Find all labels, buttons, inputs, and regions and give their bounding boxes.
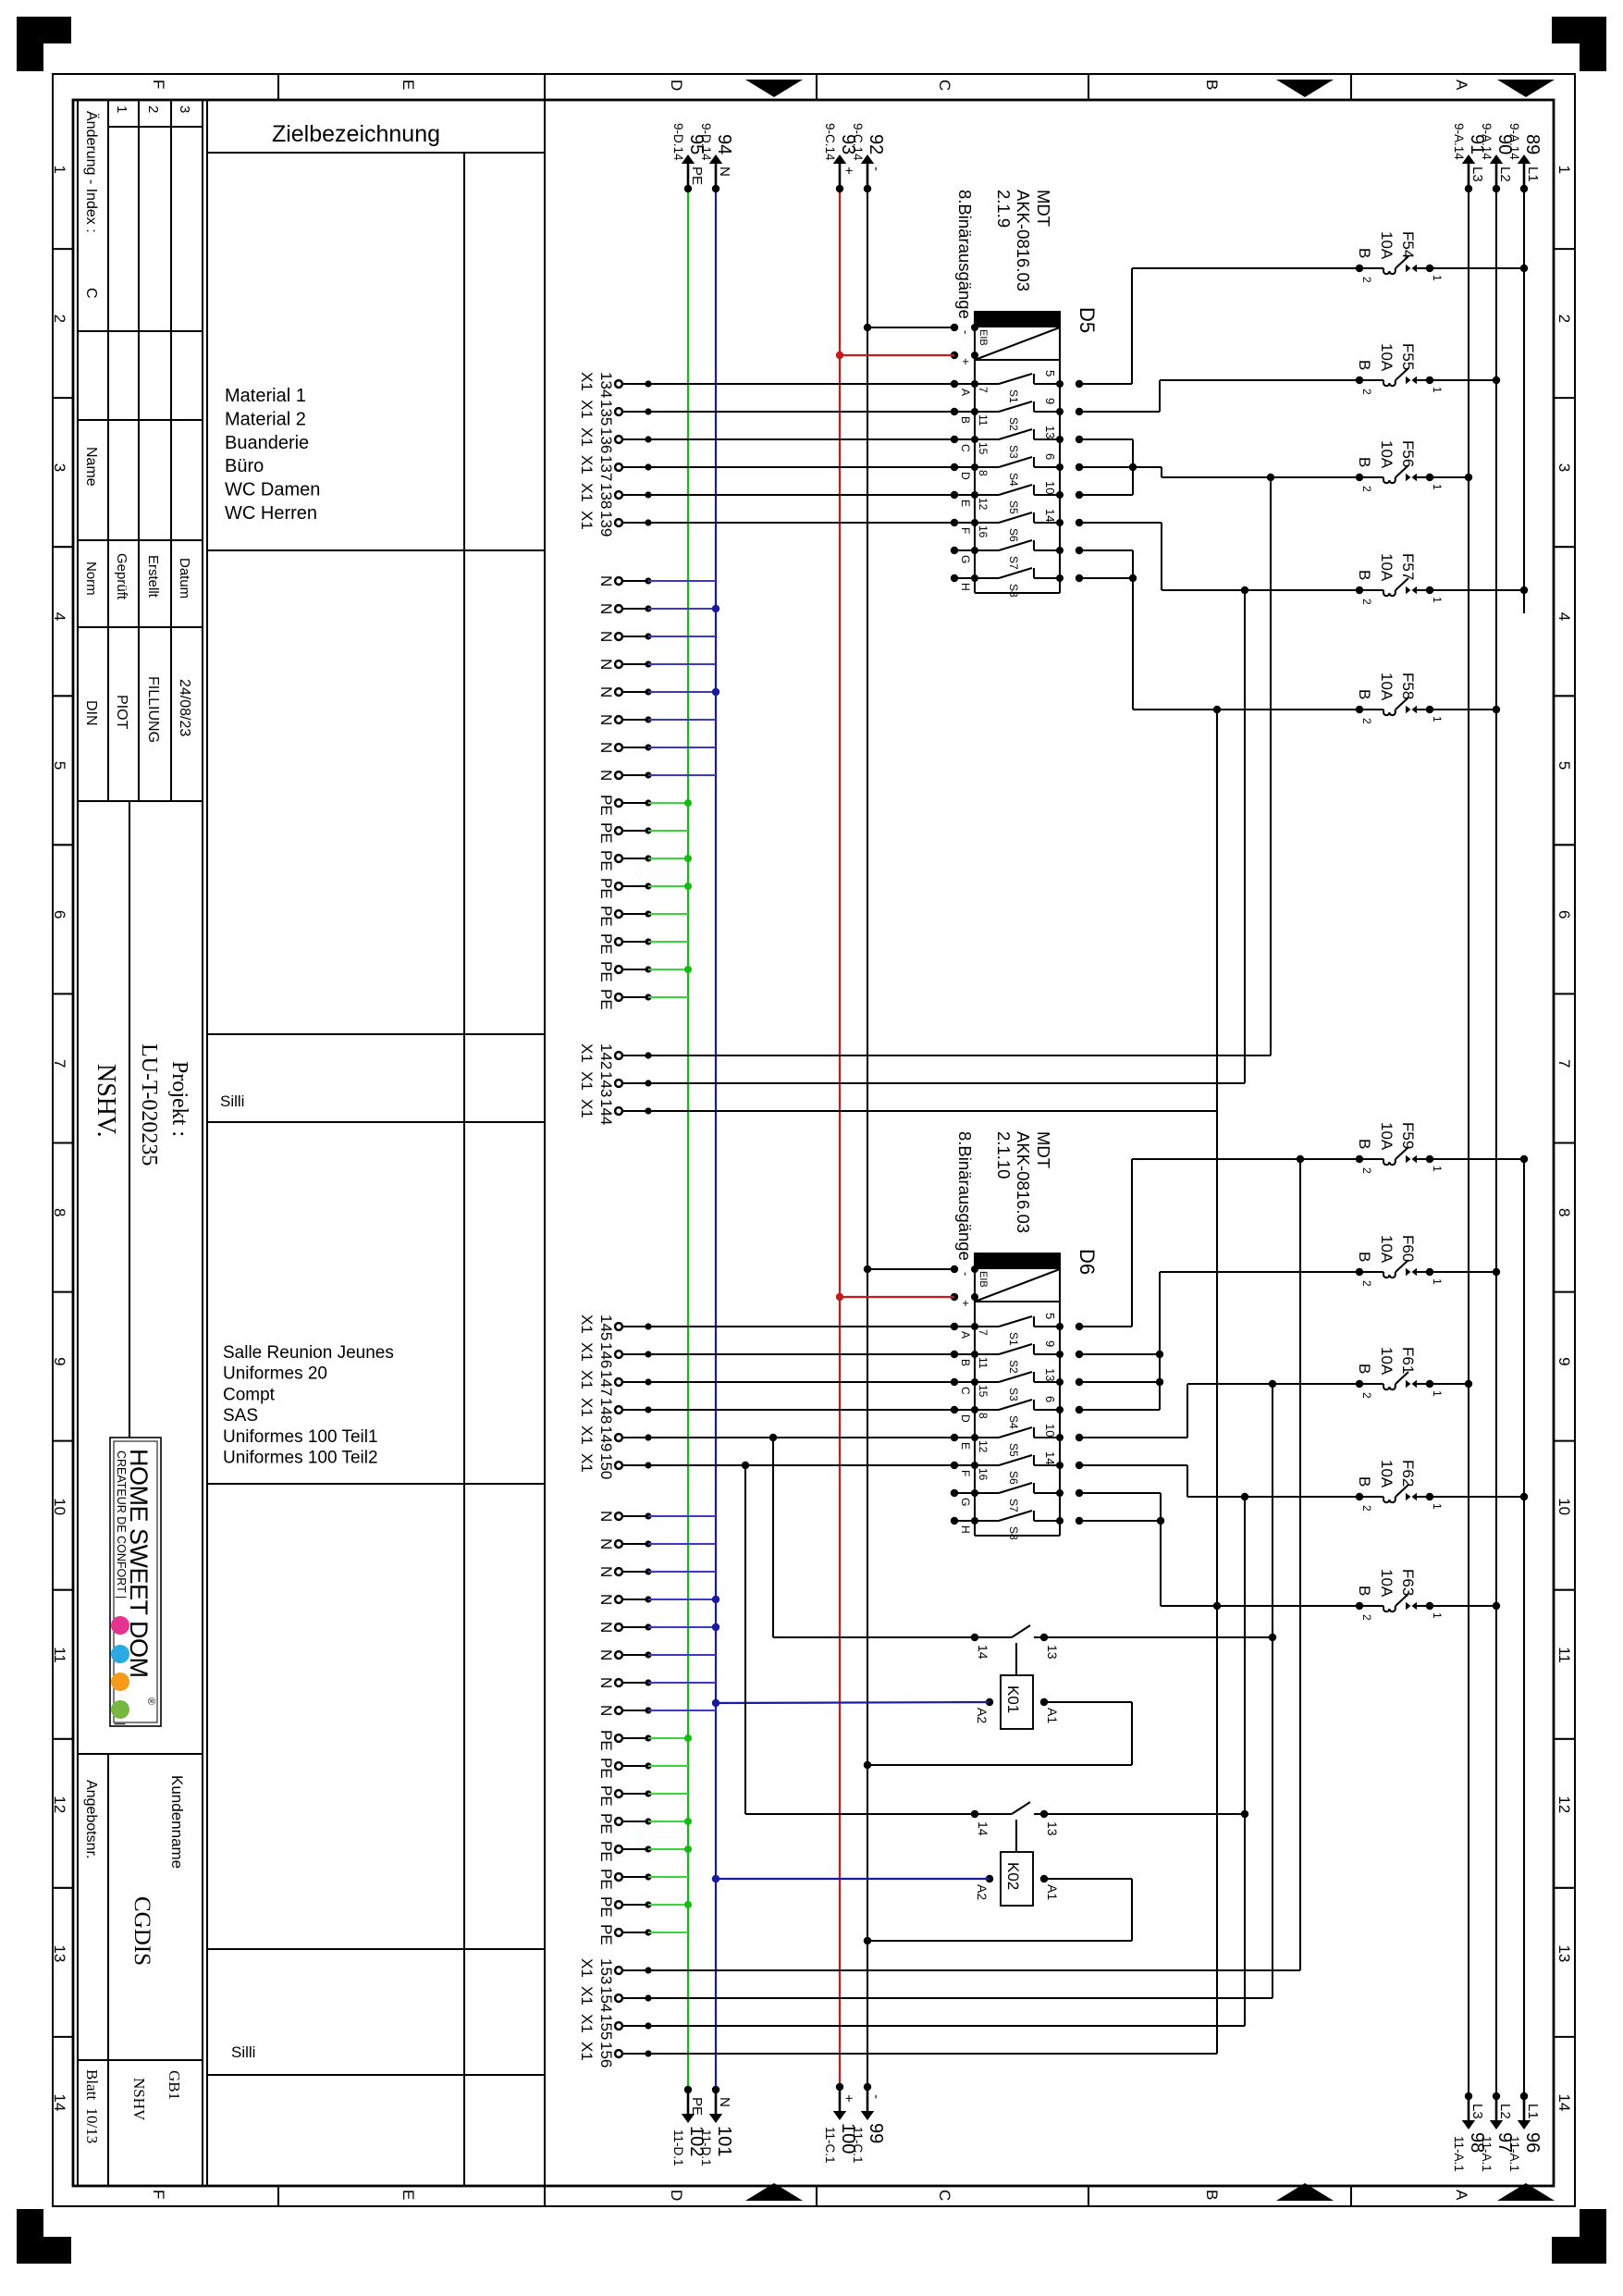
net L2 rail (90/97) (1495, 190, 1497, 2096)
svg-text:N: N (597, 714, 615, 725)
svg-text:3: 3 (51, 463, 68, 472)
wire X1:134 to D5 pin (648, 383, 954, 385)
svg-text:B: B (1356, 457, 1373, 467)
svg-text:Zielbezeichnung: Zielbezeichnung (272, 121, 440, 147)
svg-text:D5: D5 (1076, 307, 1099, 333)
svg-text:2.1.9: 2.1.9 (994, 190, 1014, 228)
svg-text:11: 11 (977, 1357, 990, 1369)
svg-text:3: 3 (177, 105, 192, 113)
svg-text:14: 14 (976, 1645, 990, 1660)
svg-text:1: 1 (1431, 597, 1444, 603)
svg-text:PE: PE (597, 1785, 615, 1807)
svg-text:S8: S8 (1007, 584, 1020, 598)
svg-text:X1: X1 (578, 400, 596, 419)
wire X1:145 to D6 pin (648, 1326, 954, 1327)
wire X1:143 riser to breaker node (648, 1082, 1245, 1084)
svg-text:145: 145 (597, 1315, 615, 1340)
svg-text:X1: X1 (578, 1426, 596, 1445)
svg-text:X1: X1 (578, 511, 596, 530)
wire X1:149 to K01 contact 14 (772, 1438, 774, 1637)
wire F56 to D5 outs 13/6/10 (1079, 438, 1133, 440)
wire X1:148 to D6 pin (648, 1409, 954, 1411)
svg-text:143: 143 (597, 1071, 615, 1097)
svg-text:LU-T-020235: LU-T-020235 (137, 1043, 161, 1166)
svg-text:L1: L1 (1525, 2104, 1541, 2119)
svg-text:11: 11 (51, 1647, 68, 1663)
svg-text:E: E (959, 500, 972, 507)
svg-text:L2: L2 (1497, 167, 1513, 182)
wire F63 to D6 outs S7/S8 (1079, 1492, 1161, 1494)
terminal X1:135 (578, 400, 652, 426)
svg-text:WC Herren: WC Herren (225, 503, 317, 524)
svg-text:MDT: MDT (1034, 190, 1053, 227)
svg-text:X1: X1 (578, 1398, 596, 1417)
svg-text:1: 1 (1431, 1278, 1444, 1285)
breaker F63 10A B on L2 (1356, 1569, 1500, 1621)
svg-text:N: N (597, 1649, 615, 1660)
svg-text:C: C (83, 288, 99, 299)
svg-text:B: B (1356, 1252, 1373, 1262)
svg-text:DIN: DIN (83, 700, 99, 726)
svg-text:Büro: Büro (225, 456, 264, 476)
svg-text:1: 1 (1431, 716, 1444, 722)
svg-text:N: N (597, 1594, 615, 1605)
wire +24V to D5 (840, 354, 954, 356)
svg-text:N: N (597, 742, 615, 753)
svg-text:146: 146 (597, 1342, 615, 1368)
svg-text:11-A.1: 11-A.1 (1480, 2136, 1494, 2172)
svg-text:9-D.14: 9-D.14 (671, 123, 685, 161)
breaker F60 10A B on L2 (1356, 1235, 1500, 1287)
svg-text:9-A.14: 9-A.14 (1507, 123, 1521, 160)
svg-text:5: 5 (51, 761, 68, 770)
terminal PE (597, 822, 652, 844)
svg-text:4: 4 (1555, 612, 1573, 621)
svg-text:10A: 10A (1378, 1122, 1396, 1151)
net L1 rail (89/96) (1523, 190, 1525, 613)
wire N to K02 A2 (716, 1878, 990, 1880)
terminal N (597, 1649, 652, 1660)
svg-text:X1: X1 (578, 1986, 596, 2006)
svg-text:11-D.1: 11-D.1 (699, 2129, 713, 2166)
svg-text:11-C.1: 11-C.1 (851, 2127, 865, 2164)
svg-text:F60: F60 (1399, 1235, 1417, 1262)
svg-text:K01: K01 (1004, 1685, 1022, 1713)
svg-text:PE: PE (597, 933, 615, 955)
wire K01 A1 loop to -24V (1044, 1701, 1132, 1703)
svg-text:L3: L3 (1469, 167, 1485, 182)
wire X1:136 to D5 pin (648, 438, 954, 440)
svg-text:Uniformes 100 Teil1: Uniformes 100 Teil1 (223, 1427, 378, 1447)
svg-text:X1: X1 (578, 1958, 596, 1978)
svg-text:2: 2 (1360, 277, 1373, 283)
net PE rail (95/102) (687, 189, 689, 2090)
terminal PE (597, 1841, 652, 1862)
svg-text:1: 1 (1431, 1612, 1444, 1619)
svg-text:6: 6 (1043, 453, 1057, 460)
svg-text:Silli: Silli (231, 2043, 255, 2061)
svg-text:1: 1 (1431, 275, 1444, 281)
terminal N (597, 1594, 652, 1605)
svg-text:A1: A1 (1045, 1884, 1060, 1900)
svg-text:Uniformes 100 Teil2: Uniformes 100 Teil2 (223, 1449, 378, 1468)
svg-text:11: 11 (977, 414, 990, 426)
svg-text:X1: X1 (578, 2042, 596, 2061)
svg-text:HOME SWEET DOM: HOME SWEET DOM (125, 1449, 153, 1678)
terminal X1:150 (578, 1453, 652, 1479)
svg-text:150: 150 (597, 1453, 615, 1479)
svg-text:5: 5 (1555, 761, 1573, 770)
contactor K02 (971, 1802, 1060, 1906)
svg-text:X1: X1 (578, 483, 596, 502)
terminal PE (597, 1730, 652, 1751)
svg-text:F: F (959, 527, 972, 534)
wire X1:144 riser to breaker node (648, 1110, 1217, 1112)
wire X1:154 feed (648, 1997, 1273, 1999)
svg-text:X1: X1 (578, 1315, 596, 1334)
svg-text:7: 7 (51, 1059, 68, 1068)
svg-text:+: + (959, 1300, 973, 1307)
svg-text:L1: L1 (1525, 167, 1541, 182)
svg-text:X1: X1 (578, 1099, 596, 1118)
wire X1:137 to D5 pin (648, 466, 954, 468)
breaker F57 10A B on L1 (1356, 553, 1528, 605)
net N rail (94/101) (715, 189, 717, 2090)
svg-text:S4: S4 (1007, 473, 1020, 487)
svg-text:F58: F58 (1399, 673, 1417, 699)
svg-text:14: 14 (1043, 509, 1057, 522)
svg-text:E: E (400, 80, 417, 90)
svg-text:92: 92 (866, 134, 886, 154)
svg-text:Material 1: Material 1 (225, 386, 306, 406)
svg-text:13: 13 (1043, 426, 1057, 438)
svg-text:7: 7 (977, 1329, 990, 1336)
node arrow 89 L1 from 9-A.14 (1507, 123, 1543, 192)
svg-text:10: 10 (1043, 481, 1057, 494)
svg-text:2: 2 (1360, 1505, 1373, 1512)
wire X1:147 to D6 pin (648, 1381, 954, 1383)
terminal N (597, 631, 652, 642)
svg-text:9: 9 (1555, 1357, 1573, 1365)
node arrow 93 + from 9-C.14 (823, 123, 858, 192)
svg-text:X1: X1 (578, 372, 596, 391)
terminal X1:154 (578, 1986, 652, 2012)
svg-text:11-A.1: 11-A.1 (1507, 2136, 1521, 2172)
svg-text:24/08/23: 24/08/23 (177, 679, 192, 736)
svg-text:N: N (597, 1566, 615, 1577)
svg-text:N: N (597, 1677, 615, 1688)
breaker F56 10A B on L3 (1356, 440, 1472, 492)
svg-text:136: 136 (597, 427, 615, 453)
svg-text:S8: S8 (1007, 1526, 1020, 1540)
svg-text:6: 6 (51, 910, 68, 919)
svg-text:B: B (1356, 1364, 1373, 1374)
svg-text:89: 89 (1522, 134, 1543, 154)
svg-text:1: 1 (1431, 387, 1444, 393)
svg-text:C: C (959, 444, 972, 452)
svg-text:PE: PE (597, 1869, 615, 1890)
terminal PE (597, 1869, 652, 1890)
svg-text:PE: PE (597, 1730, 615, 1751)
breaker F59 10A B on L1 (1356, 1122, 1528, 1174)
terminal X1:136 (578, 427, 652, 453)
terminal N (597, 1677, 652, 1688)
svg-text:N: N (717, 2097, 732, 2107)
svg-text:10A: 10A (1378, 1460, 1396, 1488)
node arrow 100 + to 11-C.1 (823, 2083, 858, 2164)
svg-text:12: 12 (51, 1796, 68, 1813)
svg-text:2: 2 (145, 105, 161, 113)
svg-text:GB1: GB1 (166, 2070, 183, 2100)
svg-text:Änderung - Index :: Änderung - Index : (83, 111, 100, 233)
svg-text:16: 16 (977, 525, 990, 538)
svg-text:N: N (597, 1705, 615, 1716)
svg-text:PE: PE (597, 1896, 615, 1918)
svg-text:F: F (150, 2190, 167, 2199)
svg-text:6: 6 (1043, 1396, 1057, 1402)
svg-text:K02: K02 (1004, 1862, 1022, 1890)
svg-text:PE: PE (597, 822, 615, 844)
svg-text:7: 7 (1555, 1059, 1573, 1068)
svg-text:14: 14 (1555, 2093, 1573, 2111)
svg-text:16: 16 (977, 1468, 990, 1481)
svg-text:13: 13 (1045, 1645, 1060, 1660)
wire F60 to D6 outs 9/13/6 (1079, 1353, 1160, 1355)
svg-text:B: B (1356, 248, 1373, 258)
svg-text:PE: PE (689, 167, 705, 185)
svg-text:14: 14 (1043, 1451, 1057, 1464)
svg-text:3: 3 (1555, 463, 1573, 472)
svg-text:F62: F62 (1399, 1460, 1417, 1487)
svg-text:A: A (959, 389, 972, 396)
svg-text:14: 14 (51, 2093, 68, 2111)
svg-text:5: 5 (1043, 370, 1057, 376)
svg-text:PE: PE (597, 1924, 615, 1945)
svg-text:X1: X1 (578, 1370, 596, 1389)
svg-text:PE: PE (597, 878, 615, 899)
svg-text:2: 2 (51, 315, 68, 323)
svg-text:1: 1 (1431, 1503, 1444, 1510)
svg-text:Datum: Datum (177, 558, 192, 599)
wire X1:156 feed (648, 2053, 1217, 2055)
terminal N (597, 770, 652, 781)
svg-text:F59: F59 (1399, 1122, 1417, 1149)
terminal X1:149 (578, 1426, 652, 1451)
terminal PE (597, 1758, 652, 1779)
svg-text:X1: X1 (578, 1071, 596, 1091)
svg-text:S3: S3 (1007, 1388, 1020, 1401)
svg-text:8: 8 (51, 1208, 68, 1216)
svg-text:2: 2 (1360, 1280, 1373, 1287)
wire X1:139 to D5 pin (648, 522, 954, 524)
terminal PE (597, 1924, 652, 1945)
terminal N (597, 1538, 652, 1549)
svg-text:9-A.14: 9-A.14 (1480, 123, 1494, 160)
svg-text:2: 2 (1360, 1167, 1373, 1174)
wire F57 to D5 out14 (1079, 522, 1162, 524)
svg-text:154: 154 (597, 1986, 615, 2012)
svg-text:N: N (597, 603, 615, 614)
svg-text:F56: F56 (1399, 440, 1417, 467)
svg-text:Salle Reunion Jeunes: Salle Reunion Jeunes (223, 1343, 394, 1363)
svg-text:1: 1 (51, 166, 68, 174)
svg-text:9: 9 (1043, 398, 1057, 404)
breaker F61 10A B on L3 (1356, 1347, 1472, 1399)
node arrow 95 PE from 9-D.14 (671, 123, 707, 192)
terminal PE (597, 850, 652, 871)
svg-text:B: B (1356, 1139, 1373, 1149)
svg-text:+: + (841, 2094, 856, 2103)
wire F58 to D5 outs S7/S8 (1079, 549, 1133, 551)
terminal X1:145 (578, 1315, 652, 1340)
svg-text:B: B (1356, 689, 1373, 699)
wire riser F61 node to K01/X1:154 (1272, 1384, 1273, 1998)
terminal PE (597, 795, 652, 816)
terminal X1:139 (578, 511, 652, 537)
terminal X1:146 (578, 1342, 652, 1368)
wire F62 to D6 out14 (1079, 1464, 1187, 1466)
svg-text:A2: A2 (975, 1884, 990, 1900)
wire X1:155 feed (648, 2025, 1245, 2027)
wire F55 to D5 out9 (1079, 411, 1160, 413)
svg-text:S3: S3 (1007, 445, 1020, 459)
wire X1:150 to D6 pin (648, 1464, 954, 1466)
svg-text:Name: Name (83, 447, 99, 487)
svg-text:L3: L3 (1469, 2104, 1485, 2119)
svg-text:E: E (400, 2190, 417, 2200)
node arrow 102 PE to 11-D.1 (671, 2086, 707, 2166)
svg-text:H: H (959, 1525, 972, 1534)
svg-text:G: G (959, 555, 972, 563)
node arrow 92 - from 9-C.14 (851, 123, 886, 192)
svg-text:®: ® (145, 1697, 156, 1705)
terminal PE (597, 878, 652, 899)
svg-text:S6: S6 (1007, 1471, 1020, 1485)
terminal N (597, 1566, 652, 1577)
terminal X1:134 (578, 372, 652, 398)
svg-text:FILLIUNG: FILLIUNG (145, 676, 161, 743)
svg-text:2.1.10: 2.1.10 (994, 1131, 1014, 1179)
node arrow 91 L3 from 9-A.14 (1452, 123, 1487, 192)
svg-text:F: F (150, 80, 167, 89)
wire K02 A1 loop to -24V (1044, 1878, 1132, 1880)
svg-text:2: 2 (1360, 486, 1373, 492)
terminal N (597, 714, 652, 725)
svg-text:PE: PE (597, 906, 615, 927)
terminal X1:142 (578, 1043, 652, 1069)
svg-text:9: 9 (51, 1357, 68, 1365)
svg-text:12: 12 (1555, 1796, 1573, 1813)
contactor K01 (971, 1625, 1060, 1729)
svg-text:2: 2 (1360, 718, 1373, 724)
terminal PE (597, 933, 652, 955)
svg-text:PE: PE (597, 1841, 615, 1862)
svg-text:S1: S1 (1007, 1332, 1020, 1346)
svg-text:A: A (1453, 80, 1470, 91)
svg-text:144: 144 (597, 1099, 615, 1125)
svg-text:101: 101 (714, 2126, 734, 2156)
terminal X1:137 (578, 455, 652, 481)
svg-text:C: C (936, 2190, 953, 2201)
svg-text:PIOT: PIOT (114, 695, 129, 730)
node arrow 94 N from 9-D.14 (699, 123, 734, 192)
svg-text:CREATEUR DE CONFORT |: CREATEUR DE CONFORT | (115, 1450, 128, 1599)
svg-text:10A: 10A (1378, 1569, 1396, 1598)
node arrow 98 L3 to 11-A.1 (1452, 2092, 1487, 2172)
svg-text:EIB: EIB (977, 1271, 989, 1288)
svg-text:13: 13 (1045, 1821, 1060, 1836)
terminal N (597, 742, 652, 753)
svg-text:2: 2 (1555, 315, 1573, 323)
svg-text:Compt: Compt (223, 1385, 276, 1404)
svg-text:148: 148 (597, 1398, 615, 1424)
wire X1:149 to D6 pin (648, 1437, 954, 1438)
svg-text:15: 15 (977, 442, 990, 455)
svg-text:D: D (668, 80, 685, 91)
svg-text:G: G (959, 1498, 972, 1506)
svg-text:F61: F61 (1399, 1347, 1417, 1374)
breaker F58 10A B on L2 (1356, 673, 1500, 724)
svg-text:N: N (597, 631, 615, 642)
svg-text:135: 135 (597, 400, 615, 426)
breaker F62 10A B on L1 (1356, 1460, 1528, 1512)
net -24V rail (92/99) (867, 186, 868, 2087)
svg-text:14: 14 (976, 1821, 990, 1836)
terminal PE (597, 961, 652, 982)
svg-text:Projekt :: Projekt : (167, 1061, 191, 1137)
terminal PE (597, 989, 652, 1010)
svg-text:Material 2: Material 2 (225, 409, 306, 429)
svg-text:12: 12 (977, 498, 990, 511)
svg-text:L2: L2 (1497, 2104, 1513, 2119)
svg-text:X1: X1 (578, 1043, 596, 1063)
svg-text:Kundenname: Kundenname (168, 1775, 186, 1869)
terminal N (597, 686, 652, 697)
svg-text:PE: PE (597, 961, 615, 982)
wire riser F59 node to X1:153 (1299, 1159, 1301, 1970)
wire X1:146 to D6 pin (648, 1353, 954, 1355)
wire X1:138 to D5 pin (648, 494, 954, 496)
wire X1:150 to K02 contact 14 (744, 1465, 746, 1814)
svg-text:1: 1 (1431, 484, 1444, 490)
svg-text:Norm: Norm (83, 562, 99, 596)
node arrow 90 L2 from 9-A.14 (1480, 123, 1515, 192)
svg-text:B: B (1356, 1476, 1373, 1487)
wire F59 to D6 out5 (1079, 1326, 1132, 1327)
svg-text:NSHV.: NSHV. (92, 1064, 120, 1138)
wire X1:153 feed (648, 1969, 1300, 1971)
svg-text:NSHV: NSHV (130, 2078, 148, 2121)
svg-text:2: 2 (1360, 389, 1373, 395)
terminal PE (597, 906, 652, 927)
svg-text:S7: S7 (1007, 556, 1020, 570)
wire X1:135 to D5 pin (648, 411, 954, 413)
breaker F54 10A B on L1 (1356, 231, 1528, 283)
svg-text:Buanderie: Buanderie (225, 433, 309, 453)
wire X1:142 riser to breaker node (648, 1055, 1271, 1056)
module D5 MDT AKK-0816.03 8x binary output (951, 190, 1099, 598)
breaker F55 10A B on L2 (1356, 343, 1500, 395)
terminal N (597, 659, 652, 670)
svg-text:WC Damen: WC Damen (225, 480, 320, 500)
svg-text:D6: D6 (1076, 1249, 1099, 1275)
svg-text:PE: PE (689, 2097, 705, 2116)
svg-text:-: - (959, 330, 973, 334)
terminal PE (597, 1896, 652, 1918)
svg-text:8.Binärausgänge: 8.Binärausgänge (955, 190, 975, 319)
svg-text:9-D.14: 9-D.14 (699, 123, 713, 161)
node arrow 96 L1 to 11-A.1 (1507, 2092, 1543, 2172)
